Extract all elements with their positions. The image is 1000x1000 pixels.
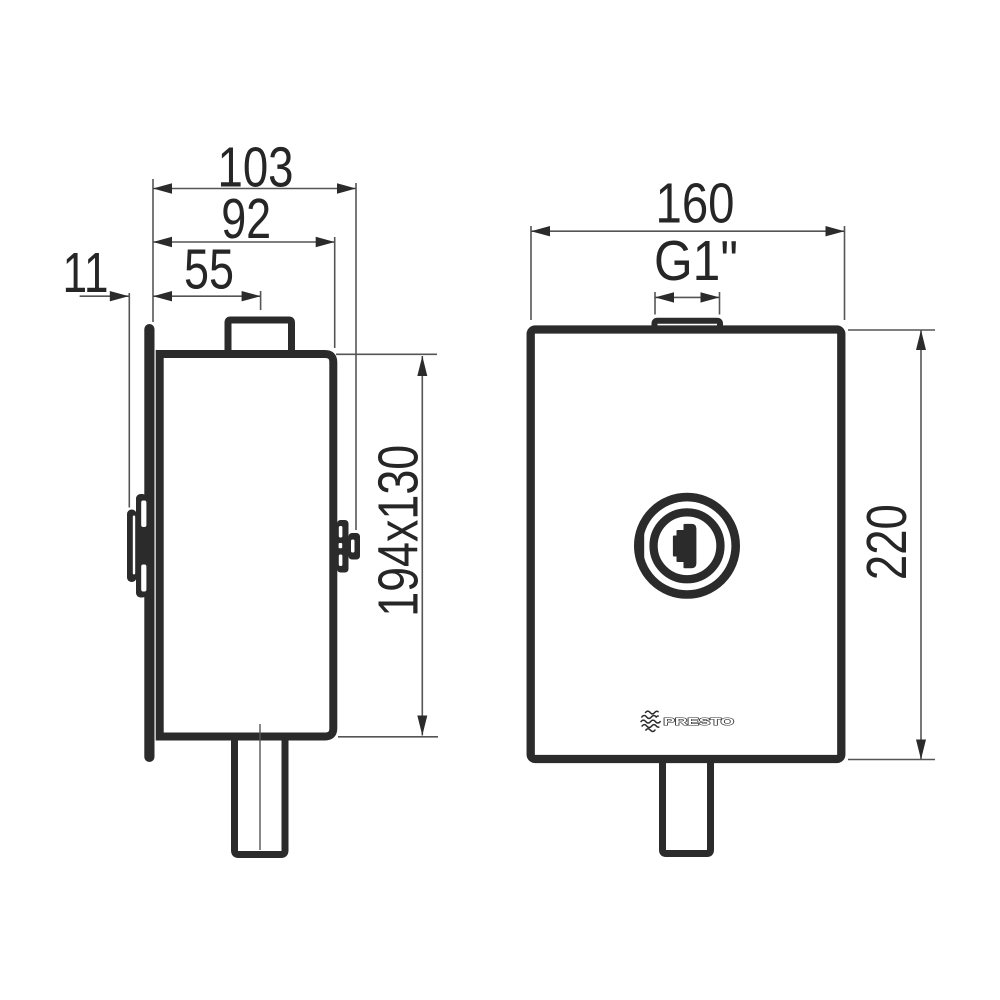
svg-text:G1": G1" bbox=[654, 229, 738, 292]
svg-text:160: 160 bbox=[656, 171, 735, 234]
svg-text:194x130: 194x130 bbox=[367, 445, 430, 617]
svg-text:55: 55 bbox=[184, 238, 234, 301]
svg-text:PRESTO: PRESTO bbox=[663, 716, 734, 728]
svg-text:220: 220 bbox=[855, 504, 918, 580]
svg-text:11: 11 bbox=[63, 241, 109, 304]
